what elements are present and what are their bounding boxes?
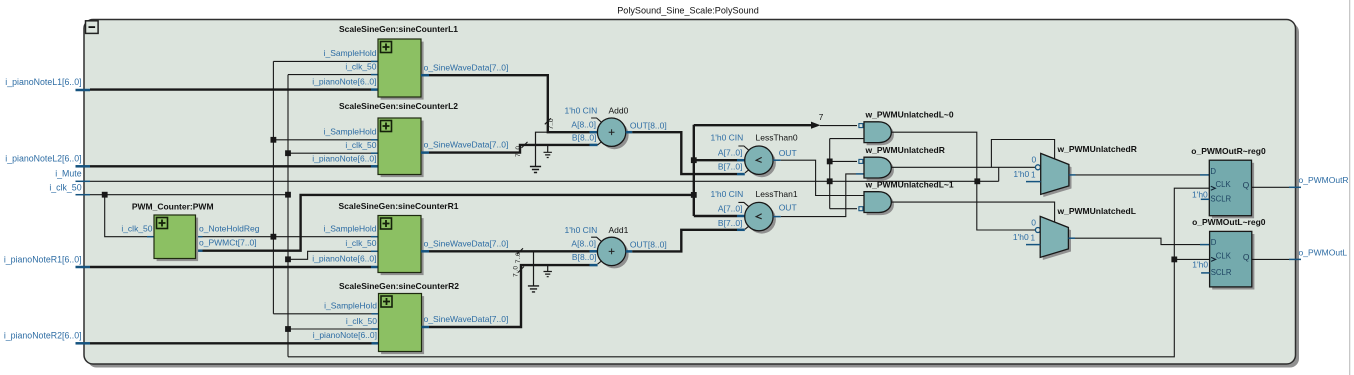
svg-text:o_PWMOutR: o_PWMOutR [1299, 175, 1349, 185]
svg-text:0: 0 [1031, 154, 1036, 164]
port stub i_clk_50 PWM [147, 236, 154, 238]
module ScaleSineGen:sineCounterR2 [381, 296, 424, 354]
mux1 output stub [1069, 174, 1076, 176]
svg-text:7..0: 7..0 [515, 252, 522, 263]
wire mux2 output to register L D [1075, 238, 1200, 244]
svg-text:o_PWMOutL: o_PWMOutL [1299, 247, 1348, 257]
wire Add0 A msb gnd branch [536, 132, 548, 166]
svg-text:1: 1 [1031, 170, 1036, 179]
output stub o_PWMOutR [1289, 186, 1301, 188]
wire i_Mute gate column vertical [829, 139, 831, 209]
op-amp adder Add1 [600, 240, 628, 268]
svg-text:i_pianoNote[6..0]: i_pianoNote[6..0] [312, 153, 376, 163]
port stub i_SampleHold L1 [371, 60, 378, 62]
wire clk jog to sineCounterR1 [288, 251, 371, 259]
svg-text:ScaleSineGen:sineCounterL1: ScaleSineGen:sineCounterL1 [339, 24, 458, 34]
wire NoteHoldReg vertical column [272, 61, 274, 313]
svg-text:OUT[8..0]: OUT[8..0] [630, 240, 667, 250]
svg-text:OUT[8..0]: OUT[8..0] [630, 120, 667, 130]
collapse button [86, 21, 99, 34]
mux2 input0 circle [1035, 228, 1040, 233]
wire NoteHoldReg to sineCounterR2 i_SampleHold [273, 313, 371, 315]
svg-text:B[7..0]: B[7..0] [718, 218, 743, 228]
module PWM_Counter:PWM [157, 218, 199, 262]
input pin stub i_pianoNoteL2 [76, 165, 91, 168]
svg-text:i_Mute: i_Mute [55, 168, 82, 178]
svg-text:1'h0 CIN: 1'h0 CIN [565, 225, 598, 235]
svg-text:D: D [1210, 167, 1216, 176]
AND gate w_PWMUnlatchedL~0 [867, 124, 894, 145]
ground Add1 A zero extend [528, 286, 539, 292]
wire Add1 B msb gnd stem [547, 265, 549, 271]
svg-text:o_SineWaveData[7..0]: o_SineWaveData[7..0] [424, 62, 509, 72]
input pin stub i_pianoNoteL1 [76, 89, 91, 92]
svg-text:PolySound_Sine_Scale:PolySound: PolySound_Sine_Scale:PolySound [617, 6, 759, 16]
junction i_Mute at mux column [974, 178, 980, 184]
ground Add0 A zero extend [530, 167, 541, 173]
svg-text:1'h0: 1'h0 [1192, 260, 1208, 270]
port stub i_pianoNote L2 [371, 165, 378, 168]
junction PWMCt bus at comparator column [691, 192, 697, 198]
svg-text:ScaleSineGen:sineCounterR1: ScaleSineGen:sineCounterR1 [339, 201, 459, 211]
mux w_PWMUnlatchedR [1043, 156, 1071, 197]
svg-text:B[7..0]: B[7..0] [718, 161, 743, 171]
mux2 output stub [1068, 237, 1075, 239]
port stub i_clk_50 L1 [371, 74, 378, 76]
junction clk column at main clk wire [285, 192, 291, 198]
register o_PWMOutL~reg0 [1212, 234, 1254, 290]
junction clk to register o_PWMOutL~reg0 [1171, 257, 1177, 263]
junction clk to sineCounterL2 [285, 150, 291, 156]
wire Add0 OUT to LessThan0 B [632, 132, 737, 174]
mux1 input0 circle [1035, 165, 1040, 170]
wire mux1 output to register R D [1076, 174, 1201, 176]
svg-text:w_PWMUnlatchedR: w_PWMUnlatchedR [865, 145, 945, 155]
wire Add0 B msb gnd stem [547, 145, 549, 152]
comparator LessThan1 [748, 205, 776, 233]
svg-text:w_PWMUnlatchedR: w_PWMUnlatchedR [1057, 144, 1137, 154]
port stub i_pianoNote R2 [372, 342, 379, 345]
bus slash R1 wave [517, 248, 523, 254]
wire clk to sineCounterL2 [288, 152, 371, 154]
wire i_Mute main run [90, 180, 999, 182]
wire i_pianoNoteL1 bus to sineCounterL1 [90, 88, 371, 90]
wire gate2 output to mux1 input0 [891, 166, 1035, 168]
svg-text:OUT: OUT [779, 148, 797, 158]
wire reg L Q to output [1252, 258, 1289, 260]
wire Add1 A msb gnd stem [533, 251, 535, 286]
port stub B Add1 [590, 264, 598, 267]
svg-text:w_PWMUnlatchedL~0: w_PWMUnlatchedL~0 [865, 109, 954, 119]
module ScaleSineGen:sineCounterL2 [381, 121, 424, 178]
svg-text:w_PWMUnlatchedL~1: w_PWMUnlatchedL~1 [865, 179, 954, 189]
ground Add1 B zero extend [544, 272, 552, 277]
svg-text:o_SineWaveData[7..0]: o_SineWaveData[7..0] [424, 140, 509, 150]
port stub i_pianoNote L1 [371, 88, 378, 91]
output stub o_PWMOutL [1289, 258, 1301, 260]
wire clk to register o_PWMOutL~reg0 [1174, 258, 1209, 260]
svg-text:7..0: 7..0 [513, 266, 520, 277]
port stub i_SampleHold R1 [371, 236, 378, 238]
svg-text:1'h0 CIN: 1'h0 CIN [711, 189, 744, 199]
junction NoteHoldReg column [271, 234, 277, 240]
svg-text:i_pianoNoteR2[6..0]: i_pianoNoteR2[6..0] [4, 330, 82, 340]
output stub OUT LessThan0 [773, 159, 781, 161]
svg-text:B[8..0]: B[8..0] [572, 133, 597, 143]
port stub D regR [1200, 174, 1209, 176]
svg-text:i_clk_50: i_clk_50 [346, 316, 377, 326]
junction NoteHoldReg to sineCounterL2 [271, 137, 277, 143]
register o_PWMOutR~reg0 [1212, 163, 1254, 219]
output stub OUT Add1 [626, 250, 632, 253]
svg-text:i_clk_50: i_clk_50 [345, 238, 376, 248]
wire sineWaveData L1 to Add0 A [429, 75, 590, 132]
input pin stub i_pianoNoteR2 [76, 342, 91, 345]
wire i_clk_50 run to clock column [90, 194, 288, 196]
module ScaleSineGen:sineCounterR1 [381, 218, 424, 275]
svg-text:LessThan0: LessThan0 [756, 133, 798, 143]
svg-text:i_SampleHold: i_SampleHold [324, 224, 377, 234]
svg-text:1'h0: 1'h0 [1192, 189, 1208, 199]
wire PWMCt msb to gate w_PWMUnlatchedL~0 [694, 124, 812, 126]
inverted input bubble gate1 top [859, 124, 863, 128]
wire gate2 output to mux1 select [991, 140, 1054, 168]
wire msb thin into gate1 bubble [820, 125, 857, 127]
svg-text:o_SineWaveData[7..0]: o_SineWaveData[7..0] [424, 314, 509, 324]
wire o_NoteHoldReg to sineCounterR1 i_SampleHold [203, 236, 372, 238]
svg-text:ScaleSineGen:sineCounterL2: ScaleSineGen:sineCounterL2 [339, 101, 458, 111]
wire clk vertical distribution column [287, 75, 289, 357]
port stub A LessThan1 [737, 215, 745, 218]
output stub o_SineWaveData R2 [422, 326, 430, 329]
svg-text:i_clk_50: i_clk_50 [121, 224, 152, 234]
output stub o_SineWaveData R1 [421, 250, 429, 253]
svg-text:Add0: Add0 [609, 106, 629, 116]
reg L clock triangle [1211, 257, 1216, 261]
reg R SCLR stub [1201, 198, 1210, 200]
wire LessThan0 OUT to gate3 top [781, 160, 864, 195]
inverted input bubble gate2 top [859, 159, 863, 163]
port stub i_clk_50 L2 [371, 152, 378, 154]
port stub i_clk_50 R2 [372, 328, 379, 330]
port stub gate2 bottom input [856, 173, 864, 175]
svg-text:ScaleSineGen:sineCounterR2: ScaleSineGen:sineCounterR2 [339, 281, 459, 291]
svg-text:o_NoteHoldReg: o_NoteHoldReg [199, 224, 260, 234]
wire PWMCt to LessThan1 A [694, 215, 737, 217]
svg-text:1'h0: 1'h0 [1013, 169, 1029, 179]
wire PWMCt comparator column vertical [693, 125, 695, 216]
output stub o_SineWaveData L1 [421, 74, 429, 77]
svg-text:LessThan1: LessThan1 [756, 189, 798, 199]
reg L SCLR stub [1201, 272, 1210, 274]
junction clk to sineCounterR1 [285, 256, 291, 262]
svg-text:D: D [1211, 238, 1217, 247]
bus slash L1 wave [545, 118, 551, 124]
mux1 input1 stub [1026, 181, 1041, 183]
wire sineWaveData R2 to Add1 B [429, 265, 590, 327]
port stub B Add0 [590, 144, 598, 147]
junction mute to gate2 top [827, 159, 833, 165]
input pin stub i_pianoNoteR1 [76, 266, 91, 269]
svg-text:7..0: 7..0 [548, 118, 555, 129]
svg-text:1'h0 CIN: 1'h0 CIN [711, 133, 744, 143]
wire LessThan1 OUT to gate2 bottom [781, 174, 856, 217]
port stub B LessThan1 [737, 229, 745, 232]
svg-text:o_PWMCt[7..0]: o_PWMCt[7..0] [199, 238, 257, 248]
wire NoteHoldReg to sineCounterL2 i_SampleHold [273, 139, 371, 141]
svg-text:A[7..0]: A[7..0] [718, 148, 743, 158]
port stub A Add0 [590, 131, 598, 134]
wire i_Mute corner up to gate2 output line [998, 167, 1000, 181]
port stub D regL [1200, 244, 1210, 246]
wire i_pianoNoteR2 bus to sineCounterR2 [90, 342, 372, 344]
junction i_clk_50 to PWM counter [102, 192, 108, 198]
svg-text:SCLR: SCLR [1210, 195, 1231, 204]
wire Add1 OUT to LessThan1 B [632, 230, 737, 252]
port stub i_clk_50 R1 [371, 250, 378, 252]
wire gate1 output to mux2 input0 [891, 132, 1035, 230]
output stub OUT LessThan1 [773, 216, 781, 218]
wire mute to gate2 top bubble [830, 160, 857, 162]
svg-text:i_pianoNoteL2[6..0]: i_pianoNoteL2[6..0] [5, 153, 81, 163]
svg-text:o_PWMOutL~reg0: o_PWMOutL~reg0 [1192, 217, 1266, 227]
svg-text:i_pianoNote[6..0]: i_pianoNote[6..0] [313, 330, 377, 340]
inverted input bubble gate3 bottom [859, 207, 863, 211]
ground Add0 B zero extend [544, 152, 552, 157]
svg-text:Q: Q [1243, 252, 1250, 262]
svg-text:i_pianoNote[6..0]: i_pianoNote[6..0] [312, 76, 376, 86]
port stub o_NoteHoldReg PWM [196, 236, 203, 238]
port stub i_pianoNote R1 [371, 266, 378, 269]
comparator LessThan0 [748, 149, 776, 177]
svg-text:A[8..0]: A[8..0] [571, 239, 596, 249]
AND gate w_PWMUnlatchedR [867, 160, 894, 181]
svg-text:Q: Q [1243, 180, 1250, 190]
svg-text:CLK: CLK [1216, 251, 1232, 260]
module ScaleSineGen:sineCounterL1 [381, 42, 424, 100]
wire reg R Q to output [1252, 186, 1290, 188]
junction i_Mute at AND column [827, 178, 833, 184]
wire sineWaveData R1 to Add1 A [429, 250, 590, 252]
wire NoteHoldReg to sineCounterL1 i_SampleHold [273, 60, 371, 62]
wire i_clk_50 drop to PWM_Counter [105, 195, 147, 237]
svg-text:i_SampleHold: i_SampleHold [324, 301, 377, 311]
port stub B LessThan0 [737, 173, 745, 176]
input pin stub i_Mute [76, 180, 91, 182]
mux2 input1 stub [1026, 244, 1040, 246]
svg-text:PWM_Counter:PWM: PWM_Counter:PWM [132, 201, 214, 211]
wire clk bottom run to output registers [288, 188, 1209, 357]
svg-text:A[7..0]: A[7..0] [718, 203, 743, 213]
output stub OUT Add0 [626, 131, 632, 134]
wire clk to sineCounterL1 [288, 74, 371, 76]
svg-text:i_clk_50: i_clk_50 [345, 140, 376, 150]
svg-text:7: 7 [819, 113, 824, 122]
AND gate w_PWMUnlatchedL~1 [867, 194, 894, 215]
port stub i_SampleHold R2 [372, 313, 379, 315]
wire gate3 output to mux2 select [891, 202, 1054, 222]
svg-text:i_pianoNote[6..0]: i_pianoNote[6..0] [312, 253, 376, 263]
port stub o_PWMCt PWM [196, 249, 203, 252]
wire sineWaveData L2 to Add0 B [429, 145, 590, 153]
port stub A LessThan0 [737, 159, 745, 162]
port stub A Add1 [590, 250, 598, 253]
wire mute to gate1 bottom [830, 138, 864, 140]
output stub o_SineWaveData L2 [421, 151, 429, 154]
svg-text:i_clk_50: i_clk_50 [345, 61, 376, 71]
svg-text:i_SampleHold: i_SampleHold [324, 127, 377, 137]
wire mute to gate3 bottom bubble [830, 208, 857, 210]
bus slash R2 wave [518, 267, 524, 273]
svg-text:CLK: CLK [1216, 180, 1232, 189]
svg-text:0: 0 [1031, 217, 1036, 227]
svg-text:i_pianoNoteR1[6..0]: i_pianoNoteR1[6..0] [4, 254, 82, 264]
window right border [1349, 0, 1350, 375]
svg-text:OUT: OUT [779, 203, 797, 213]
junction clk to sineCounterR2 [285, 326, 291, 332]
input pin stub i_clk_50 [76, 194, 91, 196]
wire o_PWMCt bus up and across [203, 195, 694, 251]
op-amp adder Add0 [600, 121, 628, 149]
svg-text:A[8..0]: A[8..0] [571, 119, 596, 129]
junction PWMCt to LessThan0 A [691, 157, 697, 163]
svg-text:1'h0: 1'h0 [1013, 232, 1029, 242]
mux w_PWMUnlatchedL [1043, 219, 1071, 260]
svg-text:o_PWMOutR~reg0: o_PWMOutR~reg0 [1191, 146, 1266, 156]
port stub i_SampleHold L2 [371, 139, 378, 141]
svg-text:i_pianoNoteL1[6..0]: i_pianoNoteL1[6..0] [5, 77, 81, 87]
svg-text:7..0: 7..0 [515, 146, 522, 157]
svg-text:B[8..0]: B[8..0] [572, 252, 597, 262]
bus slash L2 wave [522, 142, 528, 148]
wire i_pianoNoteL2 bus to sineCounterL2 [90, 165, 371, 167]
wire i_pianoNoteR1 bus to sineCounterR1 [90, 266, 371, 268]
svg-text:SCLR: SCLR [1211, 268, 1232, 277]
svg-text:w_PWMUnlatchedL: w_PWMUnlatchedL [1057, 206, 1136, 216]
bus width arrowhead [811, 122, 821, 129]
svg-text:Add1: Add1 [609, 225, 629, 235]
svg-text:i_SampleHold: i_SampleHold [324, 48, 377, 58]
svg-text:1: 1 [1031, 233, 1036, 242]
svg-text:i_clk_50: i_clk_50 [49, 182, 81, 192]
wire clk to sineCounterR2 [288, 328, 372, 330]
svg-text:o_SineWaveData[7..0]: o_SineWaveData[7..0] [424, 238, 509, 248]
svg-text:1'h0 CIN: 1'h0 CIN [565, 106, 598, 116]
reg R clock triangle [1211, 186, 1216, 190]
wire PWMCt to LessThan0 A [694, 159, 737, 161]
